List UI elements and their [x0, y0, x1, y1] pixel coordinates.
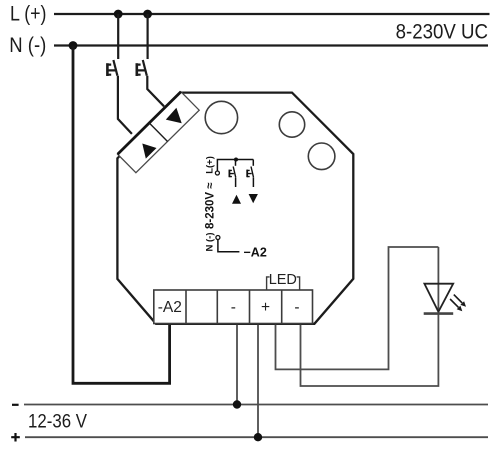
wire terminal plus to bus: [257, 325, 259, 437]
wire E1 lower: [118, 76, 132, 134]
wire LED anode loop: [276, 247, 439, 369]
label minus: [12, 404, 19, 406]
rocker divider: [149, 123, 167, 142]
rocker down triangle: [142, 144, 156, 159]
mounting hole right: [279, 112, 304, 137]
svg-text:L (+): L (+): [10, 3, 47, 26]
print down triangle: [249, 194, 258, 203]
rocker up triangle: [166, 108, 182, 124]
print junction dot: [234, 158, 238, 162]
print up triangle: [232, 195, 241, 204]
wire LED cathode loop: [301, 247, 439, 386]
print terminal circle N: [216, 236, 220, 240]
wire E2 upper: [147, 14, 149, 59]
junction dot N/loop: [69, 41, 78, 50]
junction dot L/E1: [114, 10, 123, 19]
print wire N to -A2: [218, 240, 240, 252]
wire N loop to -A2 terminal: [73, 46, 170, 384]
label plus: [11, 433, 20, 442]
svg-text:-: -: [231, 299, 236, 316]
mounting hole big: [205, 101, 237, 133]
print pushbutton 1: [229, 160, 235, 188]
rocker button block: [118, 92, 200, 173]
LED D1 triangle: [424, 284, 453, 312]
LED light arrow 2: [450, 299, 462, 311]
svg-text:-A2: -A2: [158, 299, 182, 316]
svg-text:L(+): L(+): [205, 156, 216, 174]
junction dot plus bus: [254, 433, 262, 441]
wire L bus top: [54, 13, 490, 15]
pushbutton E1: [107, 60, 117, 76]
svg-text:N (-): N (-): [204, 233, 215, 252]
pushbutton E2: [137, 60, 147, 76]
svg-text:8-230V UC: 8-230V UC: [396, 21, 488, 44]
junction dot minus bus: [233, 400, 241, 408]
junction dot L/E2: [143, 10, 152, 19]
svg-text:LED: LED: [269, 272, 297, 288]
bus minus line: [24, 404, 488, 406]
actuator octagon body: [117, 93, 353, 324]
svg-text:N (-): N (-): [9, 34, 46, 57]
svg-text:+: +: [261, 299, 270, 316]
svg-text:8-230V ≈: 8-230V ≈: [204, 182, 216, 229]
mounting hole lower-right: [308, 143, 335, 170]
terminal block: [154, 290, 313, 324]
print wire L to buttons: [217, 160, 253, 171]
LED D1 cathode bar: [424, 312, 454, 315]
svg-text:−A2: −A2: [244, 245, 267, 259]
wire E1 upper: [117, 14, 119, 59]
wire N bus: [54, 44, 488, 46]
print terminal circle L: [215, 171, 219, 175]
svg-text:-: -: [294, 299, 299, 316]
LED light arrow 1: [454, 295, 466, 307]
svg-text:12-36 V: 12-36 V: [28, 410, 87, 432]
bus plus line: [25, 436, 488, 438]
wire terminal minus to bus: [236, 325, 238, 405]
wire E2 lower: [147, 76, 164, 107]
print pushbutton 2: [247, 160, 253, 188]
